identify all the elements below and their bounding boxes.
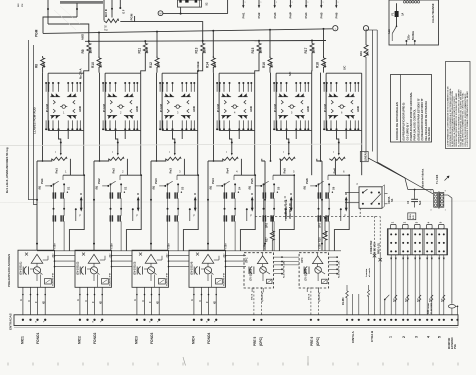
circled node A — [333, 26, 338, 31]
resistor R14 39K — [212, 56, 214, 58]
terminal strip ENTRADAS — [14, 315, 458, 326]
svg-text:MIC3: MIC3 — [135, 336, 139, 344]
svg-text:+30v: +30v — [223, 253, 225, 259]
svg-text:ENTRADAS: ENTRADAS — [9, 313, 13, 330]
svg-text:KLM R4 P M +30v: KLM R4 P M +30v — [283, 260, 286, 278]
channel 1 input selector S1 and coupling capacitors — [36, 159, 85, 251]
svg-text:LINEAS: LINEAS — [364, 152, 367, 162]
svg-text:F(ONO B): F(ONO B) — [262, 292, 264, 302]
svg-text:NcCR-A: NcCR-A — [79, 68, 83, 79]
svg-text:P G M: P G M — [102, 103, 106, 112]
svg-text:R17: R17 — [304, 47, 308, 53]
svg-text:MIC4: MIC4 — [192, 336, 196, 344]
switch block LL6 PGM-AUD channel 6 — [320, 73, 362, 176]
svg-text:+30v: +30v — [166, 253, 168, 259]
svg-text:S4: S4 — [238, 186, 242, 190]
svg-text:F: F — [79, 214, 81, 218]
svg-text:KLM R4 P M: KLM R4 P M — [52, 273, 55, 286]
preamp U2 GV-103 (2) — [75, 250, 132, 321]
connector CN1 pins — [179, 0, 181, 3]
svg-text:DE SALIDA: DE SALIDA — [428, 127, 431, 141]
svg-text:S6: S6 — [332, 186, 336, 190]
svg-text:50-60Hz: 50-60Hz — [412, 30, 415, 40]
output arrow PH1 — [242, 0, 244, 6]
svg-text:AUD: AUD — [306, 106, 310, 112]
svg-text:33K: 33K — [312, 47, 316, 54]
svg-text:AUD: AUD — [192, 106, 196, 112]
scan fold line 2 — [0, 201, 476, 203]
node L3 x202.7 — [202, 40, 204, 42]
svg-text:(GV-103)(5): (GV-103)(5) — [250, 269, 252, 281]
svg-text:33K: 33K — [42, 61, 46, 68]
svg-text:USA PRE-5 (6): USA PRE-5 (6) — [289, 203, 292, 219]
svg-text:(9) RELEVADOR PARA ESTUDIO 'B': (9) RELEVADOR PARA ESTUDIO 'B' — [421, 98, 424, 141]
svg-text:AUD: AUD — [356, 106, 360, 112]
svg-text:(M): (M) — [153, 186, 156, 190]
node bus x157 — [156, 31, 158, 33]
dashed wires PRE5 PRE6 to strip — [253, 287, 255, 315]
wire stub connector to meter wire — [180, 7, 182, 13]
bus L3 resistor feed rail — [85, 40, 326, 43]
svg-text:+30v: +30v — [111, 243, 114, 249]
svg-text:(8) RELEVADOR PARA ESTUDIO 'B': (8) RELEVADOR PARA ESTUDIO 'B' — [417, 98, 420, 141]
dashed wires with cut marks — [374, 216, 376, 252]
node L3 x259 — [258, 40, 260, 42]
svg-text:(M): (M) — [304, 186, 307, 190]
wire right margin 2 — [376, 30, 378, 162]
node J2 — [76, 8, 78, 10]
wire vertical x227.6 — [227, 0, 229, 14]
svg-text:S1: S1 — [67, 186, 71, 190]
svg-text:Rv2: Rv2 — [112, 168, 116, 174]
svg-text:F: F — [193, 214, 195, 218]
svg-text:(M): (M) — [249, 186, 252, 190]
node L3 x312 — [311, 40, 313, 42]
svg-text:P G M: P G M — [216, 103, 220, 112]
resistor R28 47K — [324, 217, 326, 219]
resistor R49 39K right rail — [365, 31, 367, 45]
svg-text:M: M — [160, 12, 162, 15]
svg-text:Rv3: Rv3 — [169, 168, 173, 174]
wire lineas to transformer — [368, 158, 433, 194]
series resistors R41-R45 on bank wires — [395, 295, 397, 301]
wire left margin vertical 2 — [34, 45, 38, 205]
svg-text:P G M: P G M — [45, 103, 49, 112]
potentiometer R47 5K log — [103, 0, 105, 21]
circled node B — [363, 26, 368, 31]
svg-text:AUD: AUD — [78, 106, 82, 112]
svg-text:OSG: OSG — [410, 214, 412, 219]
fuse holder oval — [448, 305, 455, 309]
node 220v terminals — [405, 40, 407, 42]
svg-text:S2: S2 — [124, 186, 128, 190]
relay K1 CINTA — [359, 187, 382, 209]
svg-text:R48 cerrar: R48 cerrar — [427, 303, 430, 314]
svg-text:+30v: +30v — [52, 253, 54, 259]
svg-text:(OPC): (OPC) — [316, 337, 320, 346]
wire W1 to PGM corner — [43, 17, 77, 33]
svg-text:MIC1: MIC1 — [21, 336, 25, 344]
svg-text:KLM R4 P M: KLM R4 P M — [109, 273, 112, 286]
node L3 x88.8 — [88, 40, 90, 42]
svg-text:PH3: PH3 — [273, 12, 277, 18]
svg-text:(6) PREAMPLIFICADOR (PRE-5): (6) PREAMPLIFICADOR (PRE-5) — [403, 103, 406, 141]
svg-text:SPS: SPS — [318, 223, 321, 228]
svg-text:F(ONO B): F(ONO B) — [319, 292, 321, 302]
wire seg A to AUD drop — [48, 24, 89, 41]
dashed wire conectar pre-5/6 — [255, 215, 380, 217]
svg-text:PH6: PH6 — [334, 12, 338, 18]
svg-text:R27: R27 — [266, 237, 269, 242]
svg-text:R1-680: R1-680 — [343, 297, 345, 305]
svg-text:E F: E F — [123, 9, 126, 13]
preamp U6 GV-103 (6) OPC dashed — [299, 253, 341, 292]
svg-text:PH1: PH1 — [40, 178, 44, 184]
svg-text:PGM: PGM — [35, 29, 39, 37]
svg-text:(OPC): (OPC) — [259, 337, 263, 346]
svg-text:LLAVES PGM-AUD: LLAVES PGM-AUD — [33, 106, 37, 134]
svg-text:Rv1 a Rv6 ,ATENUADORES 5K log: Rv1 a Rv6 ,ATENUADORES 5K log — [5, 147, 9, 193]
wires CINTA A terminals — [351, 294, 353, 315]
channel 4 input selector S4 and coupling capacitors — [207, 159, 256, 251]
svg-text:OPC: OPC — [245, 257, 249, 263]
svg-text:1: 1 — [389, 336, 393, 338]
bus L2 main rail — [43, 29, 332, 34]
node L3 x145.3 — [144, 40, 146, 42]
potentiometer Rv1 5K — [60, 143, 62, 154]
svg-text:Rv4: Rv4 — [226, 168, 230, 174]
channel 6 input selector S6 and coupling capacitors — [304, 159, 350, 251]
wire top-left cutoff bus (double line) — [60, 1, 103, 3]
box CAJA TRANSF — [389, 0, 439, 45]
svg-text:33K: 33K — [88, 47, 92, 54]
fine print notes box — [446, 62, 471, 149]
wire vertical drop x77 — [76, 3, 78, 17]
svg-text:S5: S5 — [277, 186, 281, 190]
svg-text:R8: R8 — [35, 64, 39, 68]
potentiometer Rv5 5K — [288, 143, 290, 154]
meter M1 circle — [158, 11, 163, 16]
node J3 — [180, 13, 182, 15]
svg-text:3: 3 — [414, 336, 418, 338]
svg-text:47K: 47K — [273, 232, 276, 237]
output arrow PH5 — [320, 0, 322, 6]
svg-text:33K: 33K — [145, 47, 149, 54]
svg-text:R11: R11 — [137, 48, 141, 54]
svg-text:al usarlo: al usarlo — [369, 267, 371, 277]
svg-text:R49: R49 — [359, 51, 363, 56]
svg-text:P G M: P G M — [323, 103, 327, 112]
svg-text:F: F — [344, 214, 346, 218]
svg-text:+30v: +30v — [225, 243, 228, 249]
svg-text:PARA SALA DE CONTROL: PARA SALA DE CONTROL — [414, 109, 417, 141]
resistor R18 39K — [323, 56, 325, 58]
output arrow PHP — [289, 0, 291, 6]
potentiometer Rv4 5K — [231, 143, 233, 154]
plug 3 — [412, 229, 423, 255]
svg-text:FONO1: FONO1 — [36, 332, 40, 344]
svg-text:+30v: +30v — [168, 243, 171, 249]
svg-text:SI SE USA: SI SE USA — [374, 242, 377, 254]
node bus x213.3 — [212, 30, 214, 32]
svg-text:KLM R4 P M: KLM R4 P M — [166, 273, 169, 286]
svg-text:R13: R13 — [195, 47, 199, 53]
output arrow PH2 — [258, 0, 260, 6]
svg-text:+30v: +30v — [319, 243, 322, 249]
svg-text:R9: R9 — [81, 49, 85, 53]
resistor R1 680 — [346, 285, 348, 291]
preamp U1 GV-103 (1) — [18, 250, 75, 321]
node J1 — [47, 8, 49, 10]
svg-text:PH5: PH5 — [319, 12, 323, 18]
wire left margin vertical 1 — [29, 40, 38, 200]
svg-text:39K: 39K — [213, 61, 217, 68]
plug 4 — [424, 229, 435, 255]
svg-text:FONO3: FONO3 — [150, 332, 154, 344]
svg-text:S/C: S/C — [343, 66, 347, 70]
svg-text:GS-2 (PRE-5) Y: GS-2 (PRE-5) Y — [406, 122, 409, 140]
svg-text:FONO2: FONO2 — [93, 332, 97, 344]
svg-text:F: F — [136, 214, 138, 218]
fuse F1 1A — [396, 3, 398, 11]
transformer winding circles — [403, 1, 405, 3]
svg-text:R28: R28 — [318, 237, 321, 242]
svg-text:S/C: S/C — [288, 72, 292, 76]
switch block LL5 PGM-AUD channel 5 — [270, 73, 312, 176]
resistor R13 33K — [202, 41, 204, 43]
cut marks X — [373, 254, 376, 257]
switch block LL2 PGM-AUD channel 2 — [99, 73, 141, 176]
output arrow PH3 — [274, 0, 276, 6]
svg-text:R10: R10 — [91, 62, 95, 68]
scan fold line — [0, 144, 362, 146]
switch block LL3 PGM-AUD channel 3 — [156, 73, 198, 176]
svg-text:levantar: levantar — [365, 268, 368, 277]
svg-text:CAJA TRANSF: CAJA TRANSF — [431, 3, 435, 23]
scan crease mark — [54, 10, 76, 30]
wire transformer secondary down — [448, 195, 452, 304]
resistor R15 33K — [258, 41, 260, 43]
svg-text:39K: 39K — [323, 61, 327, 68]
svg-text:LO ACCESORIOS Y DEMAS COMPONEN: LO ACCESORIOS Y DEMAS COMPONENTES DEL MI… — [466, 91, 469, 147]
svg-text:PH2: PH2 — [257, 12, 261, 18]
svg-text:CINTA A: CINTA A — [351, 330, 355, 343]
resistor R12 39K — [156, 56, 158, 58]
svg-text:PGM: PGM — [129, 13, 133, 20]
svg-text:Rv5: Rv5 — [283, 168, 287, 174]
svg-text:KLM R4 P M: KLM R4 P M — [223, 273, 226, 286]
node bus x323.5 — [323, 28, 325, 30]
small box OSC note — [408, 213, 416, 220]
svg-text:log: log — [104, 28, 108, 32]
svg-text:4: 4 — [427, 336, 431, 338]
svg-text:1A: 1A — [401, 12, 404, 15]
resistor R17 33K — [311, 41, 313, 43]
label box LINEAS — [360, 152, 368, 162]
channel 2 input selector S2 and coupling capacitors — [93, 159, 142, 251]
svg-text:SPS: SPS — [266, 223, 269, 228]
svg-text:PH4: PH4 — [211, 178, 215, 184]
svg-text:47K: 47K — [325, 232, 328, 237]
wire meter to connector — [163, 13, 228, 15]
svg-text:Rv1: Rv1 — [55, 168, 59, 174]
svg-text:CTRA B: CTRA B — [370, 330, 374, 342]
svg-text:PVE: PVE — [454, 344, 457, 349]
dashed wire relay to conectar — [359, 208, 361, 216]
svg-text:PH2: PH2 — [97, 178, 101, 184]
svg-text:BM: BM — [18, 3, 20, 7]
wire PGM feed to channel3 — [120, 21, 134, 23]
svg-text:(GV-103) (3): (GV-103) (3) — [134, 262, 137, 275]
channel 3 input selector S3 and coupling capacitors — [150, 159, 199, 251]
potentiometer Rv2 5K — [117, 143, 119, 154]
svg-text:R15: R15 — [251, 47, 255, 53]
svg-text:39K: 39K — [270, 61, 274, 68]
svg-text:PH6: PH6 — [305, 178, 309, 184]
svg-text:39K: 39K — [157, 61, 161, 68]
svg-text:33K: 33K — [202, 47, 206, 54]
svg-text:21.6K PME: 21.6K PME — [431, 302, 433, 314]
svg-text:PH4: PH4 — [304, 12, 308, 18]
node bus x270 — [269, 29, 271, 31]
svg-text:FONO4: FONO4 — [207, 332, 211, 344]
svg-text:PH1: PH1 — [241, 12, 245, 18]
svg-text:(GV-103) (1): (GV-103) (1) — [20, 262, 23, 275]
connector box CN1 — [178, 0, 202, 7]
preamp U3 GV-103 (3) — [132, 250, 189, 321]
switch block LL4 PGM-AUD channel 4 — [213, 73, 255, 176]
svg-text:PM: PM — [22, 4, 24, 7]
svg-text:CODIGO DE OPCIONALES: CODIGO DE OPCIONALES — [395, 102, 399, 140]
svg-text:S3: S3 — [181, 186, 185, 190]
wire vertical drop x48 — [47, 0, 49, 24]
svg-text:KLM R4 P M +30v: KLM R4 P M +30v — [338, 260, 341, 278]
svg-text:OPC: OPC — [300, 257, 304, 263]
svg-text:LL1: LL1 — [388, 29, 391, 34]
svg-text:Rv6: Rv6 — [333, 168, 337, 174]
wire C2 node to transformer — [408, 189, 433, 191]
svg-text:PH5: PH5 — [250, 178, 254, 184]
svg-text:SS: SS — [391, 198, 394, 202]
svg-text:P G M: P G M — [159, 103, 163, 112]
svg-text:5uF: 5uF — [419, 200, 422, 205]
resistor R50 area bottom right-left cluster — [367, 290, 369, 296]
resistor R16 39K — [269, 56, 271, 58]
svg-text:PRE 5: PRE 5 — [253, 337, 257, 346]
resistor R10 39K — [98, 56, 100, 58]
svg-text:(GV-103) (4): (GV-103) (4) — [191, 262, 194, 275]
plug 5 — [436, 229, 447, 255]
svg-text:T1-7406: T1-7406 — [436, 174, 439, 184]
svg-text:CONECTAR: CONECTAR — [370, 240, 373, 254]
capacitor C2 5uF — [414, 190, 416, 200]
svg-text:2: 2 — [402, 336, 406, 338]
resistor R9 33K — [88, 41, 90, 43]
wire +30v rail — [37, 250, 341, 252]
connector bank CN2 plugs 1-5 — [387, 229, 447, 255]
svg-text:5: 5 — [438, 336, 442, 338]
arrow adjust — [445, 177, 449, 181]
svg-text:AUD: AUD — [80, 33, 84, 40]
svg-text:NcCR-B: NcCR-B — [196, 61, 200, 72]
svg-text:+30v: +30v — [54, 243, 57, 249]
channel 5 input selector S5 and coupling capacitors — [249, 159, 295, 251]
plug 2 — [400, 229, 411, 255]
potentiometer Rv6 5K — [338, 143, 340, 154]
svg-text:(M): (M) — [210, 186, 213, 190]
svg-text:(M): (M) — [96, 186, 99, 190]
svg-text:39K: 39K — [99, 61, 103, 68]
wires bank to terminal strip — [390, 255, 392, 315]
svg-text:(GV-103)(6): (GV-103)(6) — [306, 269, 308, 281]
svg-text:(M): (M) — [39, 186, 42, 190]
wire right margin 1 — [372, 30, 374, 152]
svg-text:AUD: AUD — [249, 106, 253, 112]
svg-text:P G M: P G M — [273, 103, 277, 112]
switch block LL1 PGM-AUD channel 1 — [42, 73, 84, 176]
plug 1 — [388, 229, 399, 255]
svg-text:MIC B: MIC B — [309, 293, 311, 300]
svg-text:CONECTAR SI SE: CONECTAR SI SE — [285, 199, 288, 219]
svg-text:F: F — [250, 214, 252, 218]
svg-text:220v: 220v — [408, 34, 411, 40]
film edge tick marks — [7, 363, 9, 366]
svg-text:PH3: PH3 — [154, 178, 158, 184]
output arrow PH4 — [305, 0, 307, 6]
svg-text:33K: 33K — [259, 47, 263, 54]
resistor R11 33K — [144, 41, 146, 43]
svg-text:39K: 39K — [365, 51, 369, 56]
switch LL1 — [396, 26, 398, 28]
svg-text:MIC2: MIC2 — [78, 336, 82, 344]
preamp U5 GV-103 (5) OPC dashed — [244, 253, 299, 292]
svg-text:P/AMPLIFICADOR MONITOR ADICION: P/AMPLIFICADOR MONITOR ADICIONAL — [410, 92, 413, 141]
resistor R8 33K — [42, 56, 44, 58]
svg-text:PHP: PHP — [289, 12, 293, 18]
svg-text:AUD: AUD — [135, 106, 139, 112]
svg-text:R16: R16 — [262, 62, 266, 68]
output arrow PH6 — [335, 0, 337, 6]
svg-text:R12: R12 — [149, 62, 153, 68]
svg-text:R18: R18 — [316, 62, 320, 68]
svg-text:Ajuste en fabrica: Ajuste en fabrica — [421, 168, 424, 188]
svg-text:R14: R14 — [205, 62, 209, 68]
svg-text:(GV-103) (2): (GV-103) (2) — [77, 262, 80, 275]
potentiometer Rv3 5K — [174, 143, 176, 154]
node bus x99 — [98, 32, 100, 34]
preamp U4 GV-103 (4) — [189, 250, 246, 321]
resistor R27 47K — [271, 217, 273, 219]
svg-text:+30v: +30v — [264, 243, 267, 249]
svg-text:R47 D: R47 D — [104, 9, 108, 17]
svg-text:PRE 6: PRE 6 — [310, 337, 314, 346]
svg-text:MIC B: MIC B — [252, 293, 254, 300]
svg-text:PREAMPLIFICADORES: PREAMPLIFICADORES — [7, 254, 11, 287]
svg-text:ILN: ILN — [413, 215, 415, 219]
svg-text:+30v: +30v — [109, 253, 111, 259]
text box CODIGO DE OPCIONALES — [391, 75, 432, 143]
